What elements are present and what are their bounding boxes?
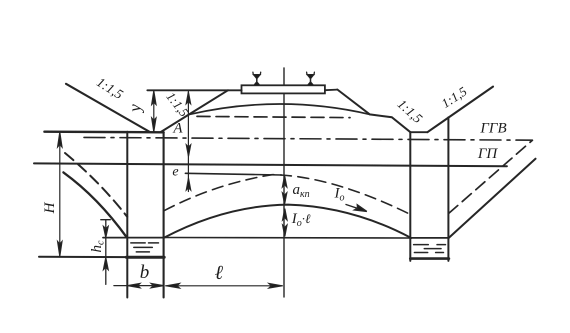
svg-text:е: е bbox=[172, 165, 178, 180]
svg-text:ГП: ГП bbox=[477, 146, 499, 162]
label 1:1.5 left cut slope bbox=[94, 74, 126, 102]
right solid ground diagonal bbox=[449, 159, 536, 238]
central solid seepage curve bbox=[164, 205, 411, 238]
lowered level short line at center bbox=[185, 173, 281, 175]
left cut slope 1:1.5 bbox=[66, 84, 149, 132]
dimension a_kp arrows on centerline bbox=[282, 176, 286, 204]
dimension H vertical bbox=[58, 132, 62, 257]
lowered water level line GP (solid) bbox=[34, 163, 507, 166]
label A (point) bbox=[172, 121, 183, 137]
embankment crest line right of sleeper bbox=[325, 89, 337, 92]
central dashed drawdown curve bbox=[164, 175, 408, 214]
svg-text:1:1,5: 1:1,5 bbox=[94, 74, 126, 102]
label GGV (high water) bbox=[479, 121, 506, 137]
label l (half span) bbox=[215, 262, 224, 284]
high water level line GGV (dash-dot) bbox=[84, 137, 532, 140]
right ditch right wall bbox=[447, 117, 449, 261]
svg-text:Iо·ℓ: Iо·ℓ bbox=[291, 211, 311, 229]
left ditch water dashes bbox=[131, 243, 159, 252]
label 1:1.5 right rising slope bbox=[439, 83, 470, 111]
left dashed drawdown curve bbox=[65, 153, 127, 217]
embankment left slope bbox=[160, 90, 228, 132]
right ditch water dashes bbox=[414, 245, 446, 253]
svg-text:ГГВ: ГГВ bbox=[479, 121, 506, 137]
right water surface line bbox=[410, 237, 449, 239]
left solid drawdown curve bbox=[63, 172, 126, 237]
svg-text:b: b bbox=[140, 262, 150, 283]
svg-text:у: у bbox=[126, 104, 145, 114]
label b (ditch width) bbox=[140, 262, 150, 283]
dimension b (ditch width) bbox=[114, 283, 164, 287]
label 1:1.5 right embankment slope bbox=[395, 96, 426, 126]
right rising slope 1:1.5 bbox=[427, 87, 493, 133]
svg-text:А: А bbox=[172, 121, 183, 137]
label e (dimension) bbox=[172, 165, 178, 180]
label H (dimension) bbox=[42, 201, 58, 214]
dimension l (half span) bbox=[166, 284, 283, 289]
svg-text:hс: hс bbox=[89, 240, 107, 253]
water level line between ditches bbox=[164, 237, 411, 240]
embankment right slope bbox=[337, 90, 410, 133]
centerline of track bbox=[283, 68, 285, 297]
svg-text:Н: Н bbox=[42, 201, 58, 214]
ground line left bbox=[44, 130, 163, 133]
label I0*l bbox=[291, 211, 311, 229]
dashed subgrade line y=116 bbox=[197, 116, 350, 117]
label 1:1.5 embankment left slope bbox=[163, 89, 192, 120]
dimension line A/e vertical bbox=[186, 91, 191, 192]
dimension y vertical bbox=[152, 90, 156, 131]
svg-text:1:1,5: 1:1,5 bbox=[395, 96, 426, 126]
left water surface line bbox=[103, 237, 164, 239]
label GP (lowered water) bbox=[477, 146, 499, 162]
left ditch right wall bbox=[163, 132, 165, 297]
left ditch left wall bbox=[126, 132, 128, 298]
label a_kp bbox=[293, 182, 310, 200]
right ditch bottom line bbox=[410, 257, 449, 260]
ground line right short segment bbox=[410, 131, 427, 133]
flow direction arrow I0 bbox=[346, 205, 367, 212]
label y (dimension) bbox=[126, 104, 145, 114]
sleeper (ballast/tie) rectangle bbox=[242, 85, 325, 93]
left ditch bottom line bbox=[39, 256, 164, 259]
dimension I0*l arrows on centerline bbox=[283, 209, 287, 237]
right ditch left wall bbox=[409, 132, 411, 261]
label hc (dimension) bbox=[89, 240, 107, 253]
label I0 (gradient) bbox=[334, 186, 345, 204]
rail left bbox=[253, 72, 261, 85]
svg-text:ℓ: ℓ bbox=[215, 262, 224, 284]
berm arch line under embankment bbox=[189, 104, 370, 115]
rail right bbox=[307, 72, 315, 85]
svg-text:Iо: Iо bbox=[334, 186, 345, 204]
right dashed drawdown diagonal bbox=[449, 140, 533, 213]
svg-text:акп: акп bbox=[293, 182, 310, 200]
embankment crest line left of sleeper bbox=[147, 89, 241, 91]
dimension hc bbox=[101, 220, 111, 285]
